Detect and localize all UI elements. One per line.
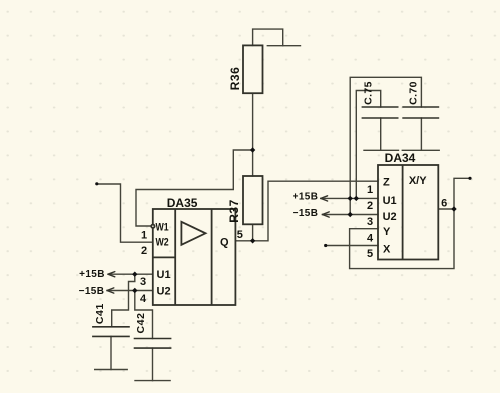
svg-text:3: 3: [140, 276, 146, 288]
svg-text:R37: R37: [227, 199, 241, 223]
wire: DA34 pin2 U1 +15B supply: [321, 197, 378, 199]
arrow -15B DA35: [107, 288, 114, 293]
wire: R36 top lead and top hook: [253, 29, 283, 46]
wire: DA35 pin5 Q output: [235, 181, 378, 241]
wire: R36 bottom to R37 top: [252, 93, 254, 176]
svg-text:W1: W1: [156, 222, 170, 234]
junction node C.70 hook on -15B row: [348, 212, 353, 217]
svg-text:1: 1: [367, 184, 373, 196]
wire: top stub segment: [267, 45, 300, 47]
wire: +15B node to C41: [112, 274, 135, 327]
wire: DA34 pin6 output up and right: [454, 178, 470, 209]
svg-text:+15B: +15B: [79, 269, 105, 280]
svg-text:−15B: −15B: [293, 208, 319, 219]
capacitor C.75: [362, 107, 399, 118]
resistor R37: [243, 176, 263, 224]
svg-text:1: 1: [141, 229, 147, 241]
svg-text:+15B: +15B: [293, 192, 319, 203]
junction node pin6: [451, 206, 456, 211]
junction node C.75 hook on +15B row: [354, 196, 359, 201]
wire: -15B node to C42: [135, 291, 153, 339]
op-amp block DA35: [153, 209, 236, 305]
wire: DA35 U1 +15B supply: [108, 273, 153, 275]
svg-text:U2: U2: [383, 211, 397, 223]
svg-text:5: 5: [237, 229, 243, 241]
node: W2 wire end dot: [95, 182, 98, 185]
junction node R37/Q: [250, 238, 255, 243]
svg-text:C.70: C.70: [408, 81, 420, 105]
arrow -15B DA34: [322, 212, 329, 217]
pin circle DA35 W1: [151, 225, 154, 228]
wire: DA34 pin6 stub: [438, 208, 454, 210]
capacitor C.70: [402, 107, 439, 118]
wire: C42 bottom rail: [135, 380, 170, 382]
svg-text:Y: Y: [383, 226, 391, 238]
wire: C.75 hook from +15B row: [356, 91, 380, 199]
svg-text:C.75: C.75: [363, 81, 375, 105]
junction node +15B DA35: [132, 272, 137, 277]
arrow +15B DA35: [108, 272, 115, 277]
wire: branch from R36/R37 node to DA35 W1: [136, 150, 253, 226]
capacitor C41: [92, 327, 130, 337]
wire: DA35 W2 input from left: [97, 184, 153, 242]
svg-text:6: 6: [441, 198, 447, 210]
svg-text:DA35: DA35: [167, 196, 198, 210]
svg-text:4: 4: [140, 293, 147, 305]
junction node -15B DA35: [132, 288, 137, 293]
wire: DA34 pin4 Y loop to pin6: [350, 209, 454, 269]
svg-text:Z: Z: [383, 176, 390, 188]
svg-text:3: 3: [367, 216, 373, 228]
svg-text:W2: W2: [156, 237, 170, 249]
wire: C.70 bottom lead: [420, 118, 422, 150]
wire: DA34 pin3 U2 -15B supply: [322, 214, 378, 216]
capacitor C42: [134, 339, 172, 349]
multiplier block DA34: [378, 165, 438, 260]
junction node C.70 hook crossing +15B row: [348, 196, 353, 201]
arrow +15B DA34: [321, 196, 328, 201]
node: DA34 X stub end dot: [324, 244, 327, 247]
svg-text:5: 5: [367, 248, 373, 260]
wire: C.75 bottom rail: [364, 149, 399, 151]
svg-text:U1: U1: [383, 195, 397, 207]
node: pin6 wire end dot: [468, 177, 471, 180]
svg-text:C41: C41: [94, 303, 106, 324]
wire: DA34 pin5 X stub: [326, 245, 378, 247]
svg-text:2: 2: [367, 200, 373, 212]
svg-text:R36: R36: [228, 67, 242, 91]
svg-text:4: 4: [367, 232, 374, 244]
svg-text:C42: C42: [135, 312, 147, 333]
svg-text:Q: Q: [220, 236, 229, 248]
wire: DA35 U2 -15B supply: [107, 290, 153, 292]
wire: C42 bottom lead: [152, 348, 154, 381]
wire: C.75 bottom lead: [380, 118, 382, 150]
resistor R36: [243, 45, 263, 93]
wire: R37 bottom lead: [252, 224, 254, 241]
svg-text:DA34: DA34: [385, 151, 416, 165]
wire: C41 bottom lead: [110, 336, 112, 369]
wire: C.70 bottom rail: [402, 149, 439, 151]
wire: C41 bottom rail: [95, 369, 128, 371]
svg-text:−15B: −15B: [79, 286, 105, 297]
svg-text:U1: U1: [157, 269, 171, 281]
svg-text:2: 2: [141, 245, 147, 257]
svg-text:X/Y: X/Y: [409, 175, 427, 187]
svg-text:U2: U2: [157, 286, 171, 298]
svg-text:X: X: [383, 244, 391, 256]
op-amp triangle inside DA35: [181, 222, 205, 245]
wire: C.70 hook from -15B row: [350, 77, 421, 214]
junction node R36/R37 to W1 branch: [250, 147, 255, 152]
